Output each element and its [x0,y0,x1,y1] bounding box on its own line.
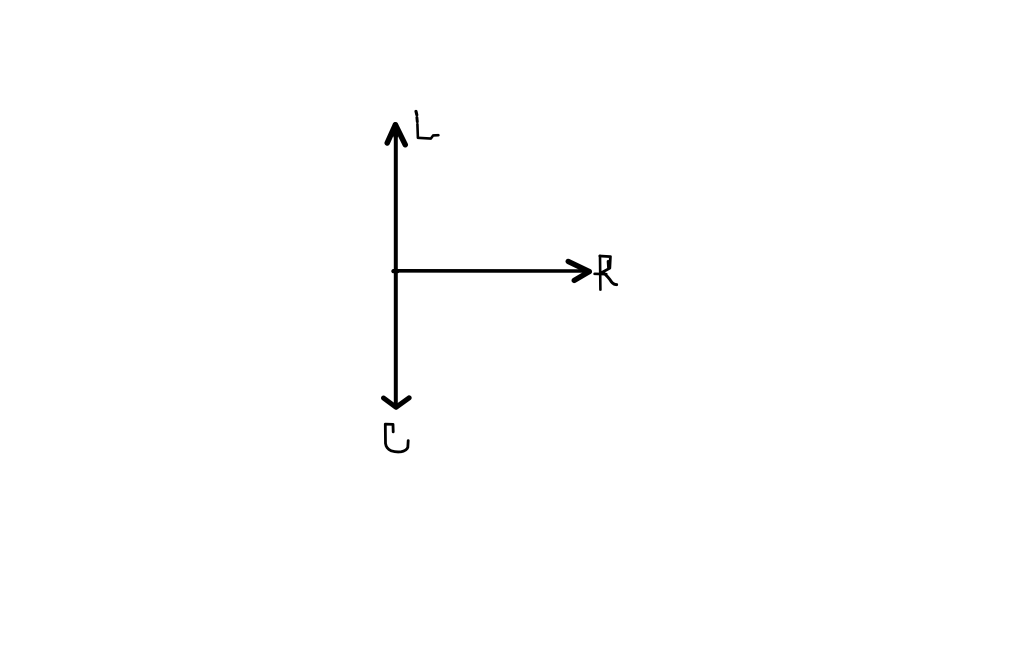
label L [416,111,438,138]
label C [385,424,408,452]
arrowhead up (L axis tip) [387,125,405,145]
arrowhead down (C axis tip) [384,398,410,408]
arrowhead right (R axis tip) [568,261,589,280]
wire: vertical axis shaft [394,127,398,404]
node: origin junction [393,269,397,273]
label R [595,256,617,290]
wire: horizontal axis shaft [394,269,587,273]
